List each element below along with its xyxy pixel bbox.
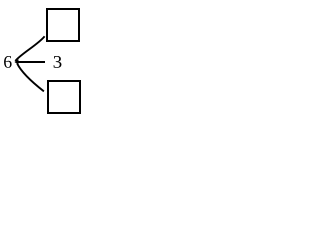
wire: upper connector to top box	[15, 36, 44, 61]
bottom answer box	[48, 81, 80, 113]
wire: horizontal connector to 3	[17, 61, 46, 63]
node 3 label	[54, 56, 62, 68]
node 6 label	[4, 56, 12, 68]
wire: lower connector to bottom box	[17, 64, 44, 92]
number-bond diagram: 6 branching to box, 3, box	[0, 0, 90, 115]
arrowhead at 6 end	[14, 59, 18, 65]
top answer box	[47, 9, 79, 41]
